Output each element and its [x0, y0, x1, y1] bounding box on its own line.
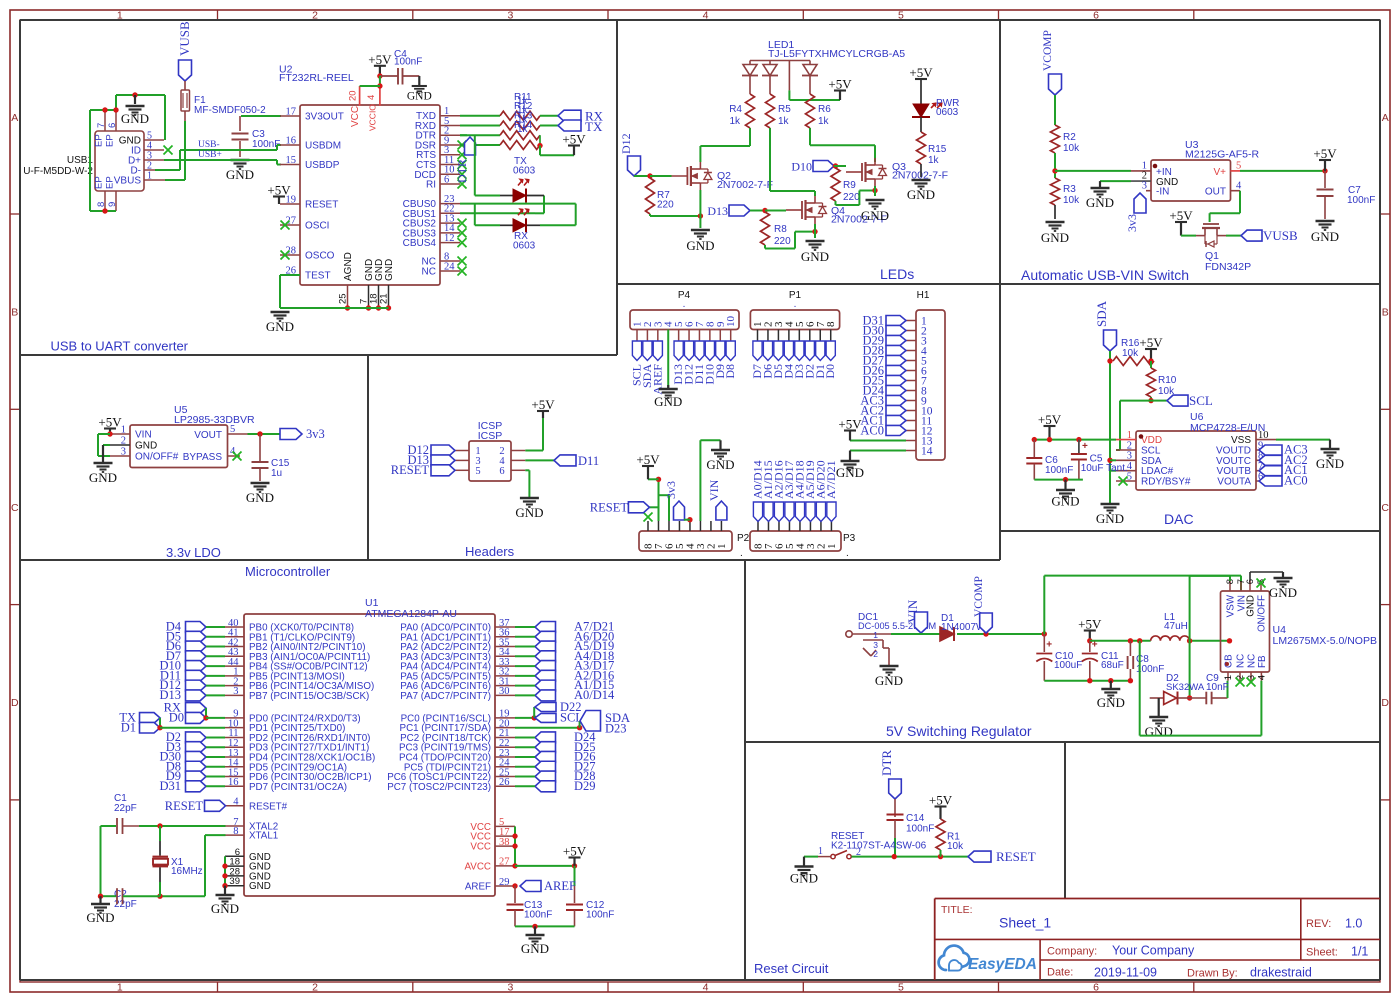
svg-text:R15: R15 — [928, 144, 947, 155]
svg-text:3V3OUT: 3V3OUT — [305, 112, 344, 123]
svg-text:3v3: 3v3 — [306, 427, 325, 441]
svg-text:21: 21 — [379, 293, 390, 304]
svg-text:GND: GND — [226, 167, 254, 182]
svg-text:10uF Tant.: 10uF Tant. — [1081, 463, 1128, 474]
svg-text:VUSB: VUSB — [1263, 228, 1298, 243]
svg-text:+5V: +5V — [909, 65, 933, 80]
svg-text:B: B — [1382, 307, 1389, 319]
svg-text:D23: D23 — [605, 722, 627, 736]
svg-text:24: 24 — [444, 261, 455, 272]
svg-text:VUSB: VUSB — [177, 21, 192, 56]
svg-text:AC0: AC0 — [1284, 474, 1308, 488]
svg-text:14: 14 — [921, 445, 933, 457]
svg-text:C: C — [1381, 502, 1389, 514]
svg-text:GND: GND — [1097, 695, 1125, 710]
svg-text:+5V: +5V — [1078, 617, 1102, 632]
svg-text:LEDs: LEDs — [880, 266, 914, 282]
svg-text:Drawn By:: Drawn By: — [1187, 967, 1238, 979]
svg-text:NC: NC — [422, 267, 436, 278]
svg-text:USBDP: USBDP — [305, 160, 340, 171]
svg-text:8: 8 — [825, 321, 837, 327]
svg-text:SCL: SCL — [1189, 393, 1213, 408]
svg-text:GND: GND — [1051, 494, 1079, 509]
svg-text:25: 25 — [338, 293, 349, 304]
svg-text:10k: 10k — [947, 841, 964, 852]
svg-text:VIN: VIN — [707, 479, 721, 501]
svg-text:TEST: TEST — [305, 271, 331, 282]
svg-text:D12: D12 — [619, 133, 633, 154]
svg-text:27: 27 — [499, 857, 510, 868]
svg-text:R9: R9 — [843, 180, 856, 191]
svg-text:GND: GND — [249, 881, 271, 892]
svg-text:GND: GND — [1145, 724, 1173, 739]
svg-text:V+: V+ — [1213, 167, 1226, 178]
svg-text:+5V: +5V — [929, 793, 953, 808]
svg-text:5: 5 — [475, 466, 480, 477]
svg-text:RESET: RESET — [391, 463, 430, 477]
svg-text:GND: GND — [89, 470, 117, 485]
svg-text:MCP4728-E/UN: MCP4728-E/UN — [1190, 422, 1265, 434]
svg-text:68uF: 68uF — [1101, 660, 1124, 671]
svg-text:MF-SMDF050-2: MF-SMDF050-2 — [194, 105, 266, 116]
svg-text:D0: D0 — [823, 364, 837, 379]
svg-text:+5V: +5V — [563, 844, 587, 859]
svg-text:R5: R5 — [778, 104, 791, 115]
svg-text:BYPASS: BYPASS — [183, 452, 223, 463]
svg-text:Sheet_1: Sheet_1 — [999, 915, 1051, 931]
svg-text:VOUTC: VOUTC — [1216, 456, 1251, 467]
svg-text:15: 15 — [286, 155, 297, 166]
svg-text:2N7002-7-F: 2N7002-7-F — [717, 179, 773, 191]
svg-text:1/1: 1/1 — [1351, 945, 1368, 959]
svg-text:A: A — [11, 112, 18, 124]
svg-text:5: 5 — [898, 982, 904, 994]
svg-text:28: 28 — [286, 245, 297, 256]
svg-text:16: 16 — [286, 135, 297, 146]
svg-text:1: 1 — [1223, 675, 1234, 680]
svg-text:VOUTA: VOUTA — [1217, 477, 1251, 488]
svg-text:4: 4 — [1236, 180, 1242, 191]
svg-text:VCCIO: VCCIO — [368, 104, 378, 131]
svg-text:4: 4 — [1257, 675, 1268, 680]
svg-text:D8: D8 — [723, 364, 737, 379]
svg-text:DTR: DTR — [879, 750, 894, 776]
svg-text:1k: 1k — [517, 124, 529, 135]
svg-text:9: 9 — [107, 202, 118, 207]
svg-text:R8: R8 — [774, 224, 787, 235]
svg-text:+5V: +5V — [1139, 335, 1163, 350]
svg-text:+5V: +5V — [1169, 208, 1193, 223]
svg-text:D31: D31 — [159, 779, 181, 793]
svg-text:EP: EP — [105, 134, 116, 147]
svg-text:VSW: VSW — [1226, 594, 1237, 617]
svg-text:drakestraid: drakestraid — [1250, 965, 1312, 979]
svg-text:RDY/BSY#: RDY/BSY# — [1141, 477, 1191, 488]
svg-text:A7/D21: A7/D21 — [824, 460, 838, 499]
svg-text:GND: GND — [407, 91, 432, 103]
svg-text:10: 10 — [725, 316, 737, 328]
svg-text:D29: D29 — [574, 779, 596, 793]
svg-text:GND: GND — [521, 941, 549, 956]
svg-text:30: 30 — [499, 686, 510, 697]
svg-text:B: B — [11, 307, 18, 319]
svg-text:+: + — [1092, 640, 1098, 651]
svg-text:GND: GND — [1269, 585, 1297, 600]
svg-text:ON/OFF: ON/OFF — [1257, 595, 1268, 632]
svg-text:+5V: +5V — [636, 452, 660, 467]
svg-text:1: 1 — [147, 171, 152, 182]
svg-text:0603: 0603 — [513, 166, 536, 177]
svg-text:10k: 10k — [1122, 348, 1139, 359]
svg-text:PD7 (PCINT31/OC2A): PD7 (PCINT31/OC2A) — [249, 782, 347, 793]
svg-text:EP: EP — [94, 134, 105, 147]
svg-text:7: 7 — [96, 123, 107, 128]
svg-text:SDA: SDA — [1141, 456, 1162, 467]
svg-text:Reset Circuit: Reset Circuit — [754, 961, 829, 976]
svg-text:Sheet:: Sheet: — [1306, 947, 1338, 959]
svg-text:0603: 0603 — [936, 107, 959, 118]
svg-text:2: 2 — [873, 649, 878, 659]
svg-text:GND: GND — [246, 490, 274, 505]
svg-text:LM2675MX-5.0/NOPB: LM2675MX-5.0/NOPB — [1273, 635, 1377, 647]
svg-text:12: 12 — [444, 233, 455, 244]
svg-text:10k: 10k — [1063, 143, 1080, 154]
svg-text:OSCI: OSCI — [305, 221, 329, 232]
svg-text:R3: R3 — [1063, 184, 1076, 195]
svg-text:GND: GND — [1246, 595, 1257, 617]
svg-text:GND: GND — [1316, 456, 1344, 471]
svg-text:USBDM: USBDM — [305, 141, 341, 152]
svg-text:XTAL1: XTAL1 — [249, 831, 278, 842]
svg-text:1: 1 — [873, 630, 878, 640]
svg-text:EP: EP — [94, 176, 105, 189]
svg-text:GND: GND — [861, 208, 889, 223]
svg-text:GND: GND — [1041, 230, 1069, 245]
svg-text:DTR: DTR — [455, 159, 469, 183]
svg-text:TX: TX — [585, 119, 603, 134]
svg-text:CBUS4: CBUS4 — [403, 238, 437, 249]
svg-text:FB: FB — [1257, 655, 1268, 668]
svg-text:D: D — [1381, 697, 1389, 709]
svg-text:GND: GND — [790, 871, 818, 886]
svg-text:3v3: 3v3 — [1125, 214, 1139, 232]
svg-text:+5V: +5V — [1038, 412, 1062, 427]
svg-text:GND: GND — [135, 441, 157, 452]
svg-text:OSCO: OSCO — [305, 251, 335, 262]
svg-text:+: + — [1046, 640, 1052, 651]
svg-text:+5V: +5V — [1313, 146, 1337, 161]
svg-text:.: . — [683, 299, 686, 310]
svg-text:6: 6 — [499, 466, 504, 477]
svg-text:GND: GND — [384, 259, 395, 281]
svg-text:VCOMP: VCOMP — [973, 576, 985, 617]
svg-text:17: 17 — [286, 106, 297, 117]
svg-text:20: 20 — [348, 90, 359, 101]
svg-text:3: 3 — [1127, 451, 1132, 462]
svg-text:R4: R4 — [729, 104, 742, 115]
svg-text:RESET#: RESET# — [249, 801, 288, 812]
svg-text:LP2985-33DBVR: LP2985-33DBVR — [174, 414, 255, 426]
svg-text:29: 29 — [499, 877, 510, 888]
svg-text:P3: P3 — [843, 533, 856, 544]
svg-text:10k: 10k — [1063, 195, 1080, 206]
svg-text:5V Switching Regulator: 5V Switching Regulator — [886, 723, 1032, 739]
svg-text:.: . — [846, 548, 849, 559]
svg-text:GND: GND — [907, 187, 935, 202]
svg-text:AVCC: AVCC — [465, 861, 492, 872]
svg-text:Company:: Company: — [1047, 945, 1097, 957]
svg-text:GND: GND — [515, 505, 543, 520]
svg-text:100nF: 100nF — [906, 824, 934, 835]
svg-text:8: 8 — [233, 826, 238, 837]
svg-text:+5V: +5V — [531, 397, 555, 412]
svg-text:RESET: RESET — [305, 200, 338, 211]
svg-text:C14: C14 — [906, 813, 925, 824]
svg-text:.: . — [740, 548, 743, 559]
svg-text:TJ-L5FYTXHMCYLCRGB-A5: TJ-L5FYTXHMCYLCRGB-A5 — [768, 48, 905, 60]
svg-text:D: D — [11, 697, 19, 709]
svg-text:TITLE:: TITLE: — [941, 904, 973, 916]
svg-text:6: 6 — [444, 174, 449, 185]
svg-text:USB-: USB- — [198, 140, 220, 150]
svg-text:FT232RL-REEL: FT232RL-REEL — [279, 72, 354, 84]
svg-text:SDA: SDA — [1094, 300, 1109, 327]
svg-text:D10: D10 — [791, 160, 812, 174]
svg-text:1: 1 — [826, 544, 838, 550]
svg-text:VIN: VIN — [135, 430, 152, 441]
svg-text:4: 4 — [366, 95, 377, 100]
svg-text:EasyEDA: EasyEDA — [968, 956, 1037, 973]
svg-text:10nF: 10nF — [1206, 682, 1229, 693]
svg-text:Microcontroller: Microcontroller — [245, 564, 331, 579]
svg-text:.: . — [794, 299, 797, 310]
svg-text:VCC: VCC — [470, 842, 491, 853]
svg-text:GND: GND — [211, 901, 239, 916]
svg-text:1: 1 — [1127, 430, 1132, 441]
svg-text:VSS: VSS — [1231, 435, 1251, 446]
svg-text:VCC: VCC — [350, 106, 361, 127]
svg-text:R10: R10 — [1158, 375, 1177, 386]
svg-text:GND: GND — [706, 457, 734, 472]
svg-text:3: 3 — [507, 982, 513, 994]
svg-text:VOUT: VOUT — [194, 430, 222, 441]
svg-text:RESET: RESET — [165, 799, 204, 813]
svg-text:+5V: +5V — [98, 415, 122, 430]
svg-text:+5V: +5V — [828, 77, 852, 92]
svg-text:100uF: 100uF — [1054, 660, 1082, 671]
svg-text:100nF: 100nF — [1347, 195, 1375, 206]
svg-text:38: 38 — [499, 837, 510, 848]
svg-text:39: 39 — [229, 876, 240, 887]
svg-text:SK32WA: SK32WA — [1166, 682, 1205, 693]
svg-text:K2-1107ST-A4SW-06: K2-1107ST-A4SW-06 — [831, 840, 927, 851]
svg-text:+5V: +5V — [838, 417, 862, 432]
svg-text:27: 27 — [286, 215, 297, 226]
svg-text:A: A — [1382, 112, 1389, 124]
svg-text:4: 4 — [703, 982, 709, 994]
svg-text:OUT: OUT — [1205, 187, 1226, 198]
svg-text:1k: 1k — [818, 116, 830, 127]
svg-text:1k: 1k — [729, 116, 741, 127]
svg-text:2019-11-09: 2019-11-09 — [1094, 965, 1157, 979]
svg-text:D0: D0 — [169, 711, 184, 725]
svg-text:1k: 1k — [928, 155, 940, 166]
svg-text:REV:: REV: — [1306, 918, 1331, 930]
svg-text:100nF: 100nF — [1045, 465, 1073, 476]
svg-text:4: 4 — [233, 797, 239, 808]
svg-text:47uH: 47uH — [1164, 621, 1188, 632]
svg-text:PC7 (TOSC2/PCINT23): PC7 (TOSC2/PCINT23) — [387, 782, 491, 793]
svg-text:R2: R2 — [1063, 132, 1076, 143]
svg-text:1u: 1u — [271, 468, 282, 479]
svg-text:AREF: AREF — [544, 879, 576, 893]
svg-text:GND: GND — [654, 394, 682, 409]
svg-text:26: 26 — [499, 777, 510, 788]
svg-text:Your Company: Your Company — [1112, 944, 1195, 958]
svg-text:1: 1 — [117, 982, 123, 994]
svg-text:8: 8 — [96, 202, 107, 207]
svg-text:Date:: Date: — [1047, 967, 1073, 979]
svg-text:100nF: 100nF — [524, 910, 552, 921]
svg-text:NC: NC — [1236, 654, 1247, 668]
svg-text:DAC: DAC — [1164, 511, 1194, 527]
svg-text:VBUS: VBUS — [114, 176, 142, 187]
svg-text:1: 1 — [716, 544, 728, 550]
svg-text:FDN342P: FDN342P — [1205, 261, 1251, 273]
svg-text:GND: GND — [266, 319, 294, 334]
svg-text:GND: GND — [121, 111, 149, 126]
svg-text:USB to UART converter: USB to UART converter — [51, 339, 189, 354]
svg-text:Headers: Headers — [465, 544, 515, 559]
svg-text:10: 10 — [1258, 430, 1269, 441]
svg-text:AREF: AREF — [465, 882, 491, 893]
svg-text:1.0: 1.0 — [1345, 917, 1362, 931]
svg-text:D1: D1 — [121, 720, 136, 734]
svg-text:-IN: -IN — [1156, 187, 1169, 198]
svg-text:Automatic USB-VIN Switch: Automatic USB-VIN Switch — [1021, 267, 1189, 283]
svg-text:D11: D11 — [578, 454, 599, 468]
svg-text:100nF: 100nF — [586, 910, 614, 921]
svg-text:RI: RI — [426, 180, 436, 191]
svg-text:C: C — [11, 502, 19, 514]
svg-text:GND: GND — [1086, 195, 1114, 210]
svg-text:CB: CB — [1224, 654, 1235, 668]
svg-text:GND: GND — [86, 910, 114, 925]
svg-text:+5V: +5V — [368, 52, 392, 67]
svg-text:GND: GND — [1311, 229, 1339, 244]
svg-text:+5V: +5V — [267, 183, 291, 198]
svg-text:ON/OFF#: ON/OFF# — [135, 452, 179, 463]
svg-text:VDD: VDD — [1141, 435, 1162, 446]
svg-text:AGND: AGND — [343, 252, 354, 281]
svg-text:D13: D13 — [707, 204, 728, 218]
svg-text:100nF: 100nF — [394, 57, 422, 68]
svg-text:GND: GND — [1096, 511, 1124, 526]
svg-text:EP: EP — [105, 176, 116, 189]
svg-text:RESET: RESET — [590, 501, 629, 515]
svg-text:6: 6 — [1093, 982, 1099, 994]
svg-text:PB7 (PCINT15/OC3B/SCK): PB7 (PCINT15/OC3B/SCK) — [249, 691, 369, 702]
svg-text:NC: NC — [1247, 654, 1258, 668]
svg-text:220: 220 — [657, 200, 674, 211]
svg-text:22pF: 22pF — [114, 803, 137, 814]
svg-text:M2125G-AF5-R: M2125G-AF5-R — [1185, 149, 1260, 161]
svg-text:3.3v LDO: 3.3v LDO — [166, 545, 221, 560]
svg-text:2: 2 — [312, 982, 318, 994]
svg-text:VCOMP: VCOMP — [1042, 30, 1054, 71]
svg-text:3v3: 3v3 — [664, 481, 678, 499]
svg-text:RESET: RESET — [996, 849, 1036, 864]
svg-text:GND: GND — [686, 238, 714, 253]
svg-text:220: 220 — [843, 192, 860, 203]
svg-text:R6: R6 — [818, 104, 831, 115]
svg-text:6: 6 — [107, 123, 118, 128]
svg-text:GND: GND — [875, 673, 903, 688]
svg-text:5: 5 — [1236, 161, 1241, 172]
svg-text:U-F-M5DD-W-2: U-F-M5DD-W-2 — [23, 166, 93, 177]
svg-text:0603: 0603 — [513, 241, 536, 252]
svg-text:+5V: +5V — [562, 132, 586, 147]
svg-text:AC0: AC0 — [860, 423, 884, 437]
svg-text:1: 1 — [818, 846, 823, 857]
svg-text:ATMEGA1284P-AU: ATMEGA1284P-AU — [365, 608, 457, 620]
svg-text:+: + — [1082, 441, 1088, 452]
svg-text:USB+: USB+ — [198, 150, 222, 160]
svg-text:16MHz: 16MHz — [171, 866, 203, 877]
svg-text:PA7 (ADC7/PCINT7): PA7 (ADC7/PCINT7) — [400, 691, 491, 702]
svg-text:GND: GND — [801, 249, 829, 264]
svg-text:220: 220 — [774, 236, 791, 247]
svg-text:2: 2 — [121, 436, 126, 447]
svg-text:3: 3 — [1142, 180, 1147, 191]
svg-text:3: 3 — [233, 686, 238, 697]
svg-text:1k: 1k — [778, 116, 790, 127]
svg-text:H1: H1 — [917, 290, 930, 301]
svg-text:3: 3 — [121, 447, 126, 458]
svg-text:16: 16 — [228, 777, 239, 788]
svg-text:GND: GND — [836, 465, 864, 480]
svg-text:P2: P2 — [737, 533, 750, 544]
